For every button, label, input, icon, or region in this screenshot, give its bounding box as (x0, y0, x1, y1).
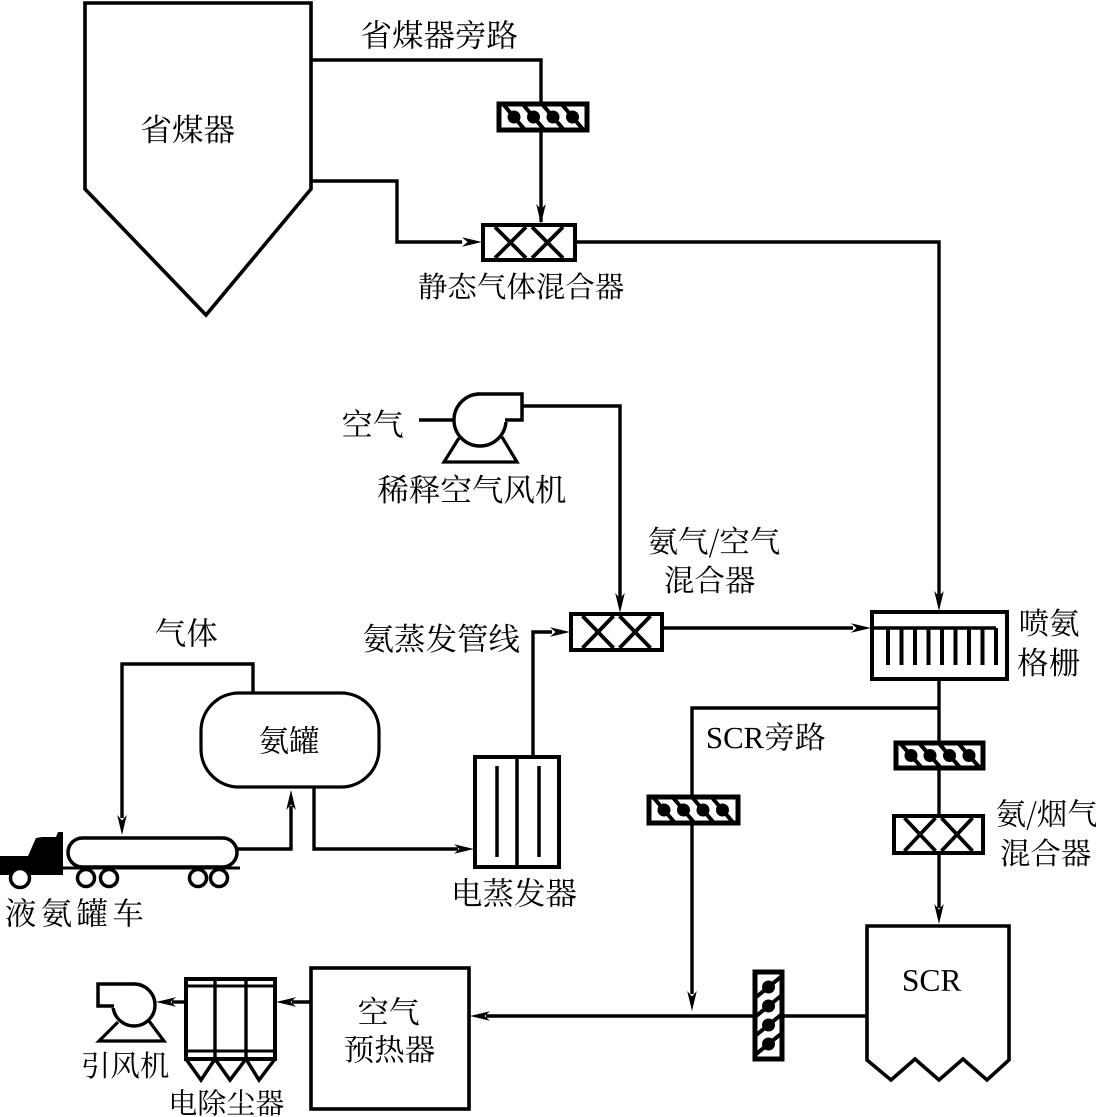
label geshan (1018, 647, 1079, 676)
wire evaporator riser to mixer M2 (533, 632, 552, 757)
label jingtai-qiti-hunheqi (419, 272, 624, 299)
label shengmeiqi-panglu (362, 20, 517, 49)
wire D1 to mixer M1 (539, 130, 542, 222)
label kongqi-fan (343, 409, 403, 438)
wire truck to tank (237, 806, 291, 849)
label xishi-kongqi-fengji (378, 474, 565, 503)
label kongqi-preheat (359, 997, 419, 1026)
damper D3 SCR bypass (649, 797, 738, 823)
ammonia storage tank (201, 693, 379, 787)
ammonia injection grid (AIG) (872, 612, 1007, 679)
wire air inlet to fan (419, 418, 455, 421)
wire D2 to mixer M3 (937, 768, 940, 817)
wire economizer bypass (top) (311, 60, 541, 104)
mixer M3 ammonia/flue-gas mixer (894, 816, 983, 853)
label penan (1021, 608, 1078, 636)
label an-yanqi (997, 799, 1096, 830)
label scr-panglu (708, 722, 825, 751)
label anqi-kongqi (649, 526, 779, 557)
label yean-guanche (6, 898, 143, 927)
label an-zhengfa-guanxian (364, 623, 519, 652)
air preheater (311, 968, 469, 1109)
dilution air fan (444, 391, 524, 462)
induced draft fan (96, 981, 164, 1041)
wire M1 to AIG (575, 242, 939, 596)
wire preheater to ESP (292, 1000, 311, 1003)
damper D1 economizer bypass (499, 104, 587, 130)
economizer vessel (85, 3, 311, 315)
label yurieqi (345, 1035, 434, 1063)
electrostatic precipitator (ESP) (186, 979, 275, 1080)
wire ESP to ID fan (172, 1000, 186, 1003)
label yinfengji (83, 1051, 168, 1078)
label scr-reactor (904, 970, 961, 991)
mixer M1 static gas mixer (483, 225, 575, 260)
wire M2 to AIG (662, 626, 853, 629)
SCR reactor (867, 926, 1009, 1080)
damper D2 AIG outlet (896, 743, 983, 768)
wire tank to evaporator (314, 787, 458, 849)
liquid ammonia tank truck (0, 832, 240, 888)
wire AIG down to damper D2 (937, 679, 940, 744)
label dianchuchenqi (172, 1089, 284, 1116)
wire economizer outlet to mixer M1 (311, 181, 462, 242)
label shengmeiqi-in-vessel (142, 114, 234, 143)
label hunheqi-1 (665, 565, 755, 593)
wire D3 down to flue line (690, 823, 693, 994)
label anguan (260, 726, 319, 754)
label hunheqi-2 (1001, 838, 1091, 866)
wire gas return tank to truck (122, 664, 253, 818)
wire SCR to air preheater (784, 1014, 867, 1017)
mixer M2 ammonia/air mixer (571, 614, 662, 650)
wire fan to mixer M2 (522, 406, 620, 598)
label dianzhengfaqi (455, 878, 576, 907)
electric evaporator (475, 757, 559, 867)
label qiti (156, 618, 217, 647)
damper D4 flue line (755, 972, 782, 1059)
wire SCR bypass horizontal + down (692, 708, 939, 798)
wire M3 to SCR reactor (937, 853, 940, 908)
